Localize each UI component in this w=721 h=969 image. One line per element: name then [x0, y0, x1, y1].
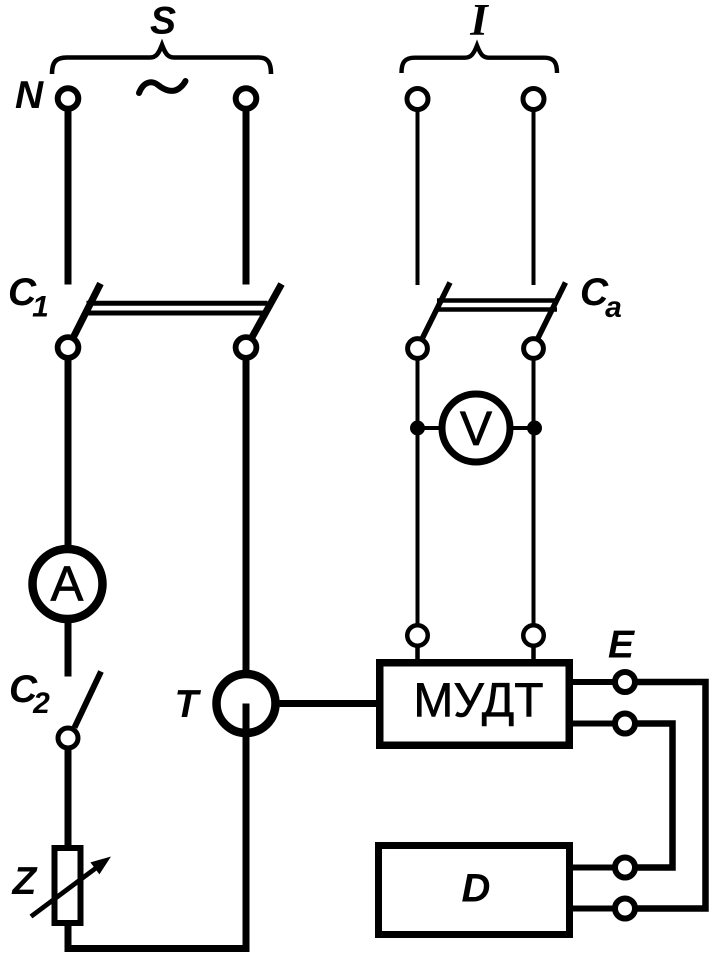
svg-text:V: V: [460, 403, 492, 456]
svg-text:E: E: [608, 624, 635, 667]
svg-text:D: D: [462, 867, 491, 911]
svg-text:I: I: [469, 0, 489, 45]
svg-text:МУДТ: МУДТ: [413, 675, 543, 728]
svg-text:T: T: [175, 683, 202, 726]
svg-text:N: N: [15, 74, 44, 117]
svg-text:S: S: [150, 0, 176, 43]
svg-text:Z: Z: [12, 860, 39, 903]
svg-text:A: A: [51, 558, 84, 612]
